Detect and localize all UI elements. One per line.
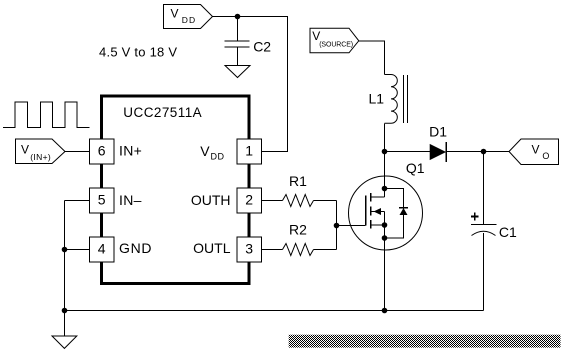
svg-text:(IN+): (IN+) bbox=[30, 152, 51, 162]
node source rail junction bbox=[382, 308, 388, 314]
node ground rail junction bbox=[62, 308, 68, 314]
wire R2 to gate node bbox=[314, 249, 337, 251]
capacitor C1 bbox=[471, 225, 497, 236]
svg-text:IN–: IN– bbox=[119, 192, 142, 208]
label + bbox=[471, 213, 479, 221]
wire C1 to rail bbox=[483, 233, 485, 311]
wire L1 to rail bbox=[384, 123, 386, 151]
IC UCC27511A body bbox=[102, 96, 250, 284]
inductor L1 bbox=[385, 74, 398, 123]
wire V(SOURCE) to L1 bbox=[359, 41, 385, 75]
svg-text:L1: L1 bbox=[369, 90, 385, 106]
svg-text:DD: DD bbox=[182, 15, 197, 25]
svg-text:4: 4 bbox=[98, 241, 106, 257]
flag VDD bbox=[164, 5, 213, 29]
Q1 drain contact bbox=[371, 196, 385, 198]
pin 5 box bbox=[90, 188, 115, 213]
Q1 body diode bbox=[399, 207, 408, 209]
wire junction to D1 bbox=[385, 151, 431, 153]
svg-text:O: O bbox=[542, 151, 549, 161]
pin 6 box bbox=[90, 139, 115, 164]
svg-text:Q1: Q1 bbox=[406, 160, 425, 176]
svg-text:5: 5 bbox=[98, 192, 106, 208]
wire junction to gate bbox=[337, 225, 366, 227]
pin 1 box bbox=[237, 139, 262, 164]
Q1 source wire bbox=[384, 225, 386, 311]
wire junction to C2 bbox=[237, 17, 239, 42]
Q1 source contact bbox=[371, 224, 385, 226]
wire pin 5 to left bus bbox=[65, 200, 90, 202]
Q1 body contact with arrow bbox=[371, 211, 385, 213]
svg-text:OUTH: OUTH bbox=[191, 192, 231, 208]
Q1 drain dot bbox=[382, 186, 388, 192]
flag V(SOURCE) bbox=[310, 28, 359, 53]
wire V(IN+) to pin 6 bbox=[65, 151, 90, 153]
input square wave bbox=[3, 102, 90, 128]
flag V(IN+) bbox=[16, 139, 66, 164]
svg-text:(SOURCE): (SOURCE) bbox=[319, 42, 353, 49]
node gate junction bbox=[334, 223, 340, 229]
svg-text:DD: DD bbox=[211, 152, 225, 162]
wire D1 to VO bbox=[446, 151, 509, 153]
svg-text:6: 6 bbox=[98, 143, 106, 159]
Q1 channel segments bbox=[370, 193, 372, 229]
left bus wire bbox=[64, 201, 66, 337]
pin 4 box bbox=[90, 237, 115, 262]
resistor R1 bbox=[283, 195, 314, 207]
wire pin 4 to left bus bbox=[65, 249, 90, 251]
wire pin 3 to R2 bbox=[262, 249, 283, 251]
node VDD junction bbox=[235, 14, 241, 20]
node drain rail junction bbox=[382, 149, 388, 155]
svg-text:R2: R2 bbox=[289, 222, 307, 238]
wire C2 to ground bbox=[237, 47, 239, 66]
svg-text:2: 2 bbox=[245, 192, 253, 208]
Q1 drain wire bbox=[384, 152, 386, 198]
Q1 body diode branch bbox=[385, 189, 404, 239]
svg-text:D1: D1 bbox=[429, 124, 447, 140]
svg-text:C1: C1 bbox=[499, 224, 517, 240]
gate bus wire bbox=[336, 201, 338, 250]
svg-text:GND: GND bbox=[119, 240, 152, 256]
transistor Q1 bbox=[349, 152, 423, 311]
ground rail bbox=[65, 310, 484, 312]
svg-text:C2: C2 bbox=[253, 39, 271, 55]
svg-text:IN+: IN+ bbox=[119, 143, 142, 159]
svg-text:V: V bbox=[532, 143, 540, 157]
ground symbol left bbox=[52, 336, 77, 348]
diode D1 bbox=[430, 142, 446, 162]
svg-text:OUTL: OUTL bbox=[193, 240, 231, 256]
wire VDD flag to pin 1 bbox=[213, 17, 288, 152]
svg-text:R1: R1 bbox=[289, 173, 307, 189]
wire pin 2 to R1 bbox=[262, 200, 283, 202]
svg-text:4.5 V to 18 V: 4.5 V to 18 V bbox=[99, 45, 177, 60]
Q1 source dot bbox=[382, 222, 388, 228]
svg-text:V: V bbox=[200, 143, 210, 159]
svg-text:V: V bbox=[171, 7, 179, 21]
svg-text:1: 1 bbox=[245, 143, 253, 159]
resistor R2 bbox=[283, 244, 314, 256]
pin 2 box bbox=[237, 188, 262, 213]
node output junction bbox=[481, 149, 487, 155]
L1 core lines bbox=[404, 75, 408, 123]
ground below C2 bbox=[225, 66, 250, 78]
capacitor C2 bbox=[225, 41, 250, 47]
svg-text:UCC27511A: UCC27511A bbox=[123, 105, 202, 120]
Q1 source node dot bbox=[382, 235, 388, 241]
svg-text:3: 3 bbox=[245, 241, 253, 257]
wire junction to C1 bbox=[483, 152, 485, 225]
Q1 gate line bbox=[365, 196, 367, 226]
wire R1 to gate node bbox=[314, 200, 337, 202]
Q1 circle bbox=[349, 176, 423, 250]
flag VO bbox=[509, 139, 559, 165]
pin 3 box bbox=[237, 237, 262, 262]
node pin4 junction bbox=[62, 247, 68, 253]
svg-text:V: V bbox=[21, 143, 29, 157]
